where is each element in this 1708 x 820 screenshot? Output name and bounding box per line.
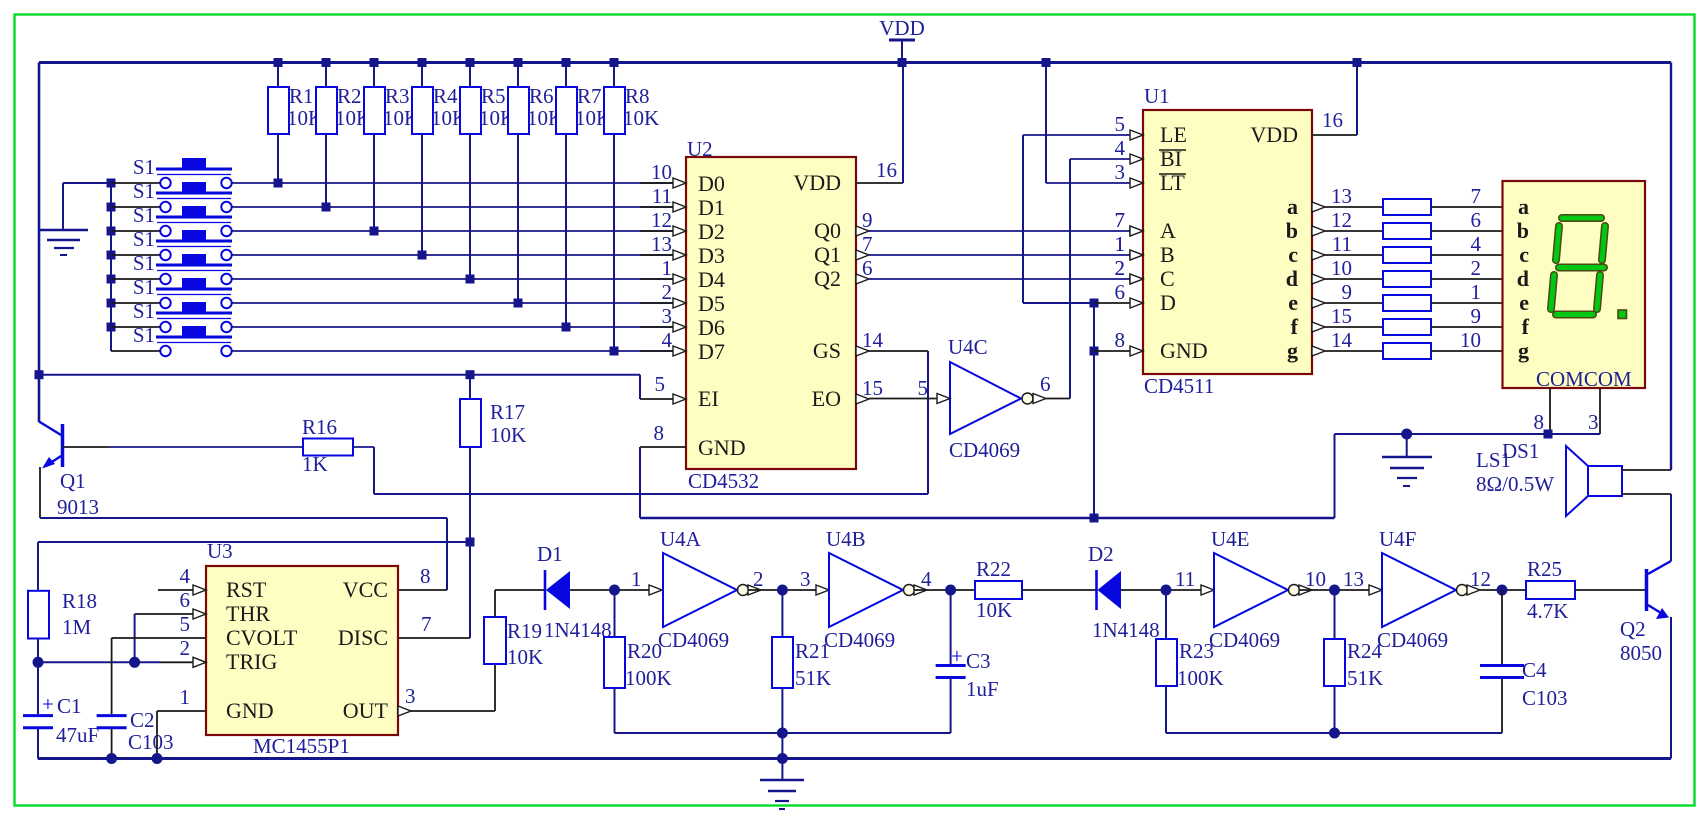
svg-text:12: 12 bbox=[1331, 208, 1352, 232]
svg-text:d: d bbox=[1517, 266, 1529, 291]
svg-text:COMCOM: COMCOM bbox=[1536, 367, 1632, 391]
resistor R8 10K bbox=[604, 58, 659, 356]
svg-text:VDD: VDD bbox=[793, 170, 841, 195]
wire Q2 emitter to rail bbox=[1670, 617, 1672, 759]
wire R22 to D2 bbox=[1022, 589, 1096, 591]
svg-text:R5: R5 bbox=[481, 84, 506, 108]
U1 output b pin 12 arrow bbox=[1312, 208, 1383, 236]
svg-text:2: 2 bbox=[180, 636, 191, 660]
svg-text:LE: LE bbox=[1160, 122, 1187, 147]
wire bottom GND rail bbox=[38, 757, 1671, 760]
svg-text:8050: 8050 bbox=[1620, 641, 1662, 665]
resistor R6 10K bbox=[508, 58, 563, 308]
resistor R22 10K bbox=[975, 557, 1022, 622]
svg-text:5: 5 bbox=[918, 376, 929, 400]
switch S1 section 8 bbox=[111, 323, 232, 356]
wire S1-2 to U2 D1 bbox=[232, 206, 673, 208]
svg-text:g: g bbox=[1287, 338, 1298, 363]
wire U4A out to U4B bbox=[748, 567, 829, 596]
wire S1-7 to U2 D6 bbox=[232, 326, 673, 328]
svg-text:CD4511: CD4511 bbox=[1144, 374, 1214, 398]
wire R20 R21 C3 common bbox=[615, 728, 951, 739]
switch S1 section 7 bbox=[107, 299, 233, 332]
wire U1 LT net to VDD bbox=[1042, 58, 1132, 183]
svg-text:c: c bbox=[1519, 242, 1529, 267]
svg-text:1: 1 bbox=[180, 685, 191, 709]
svg-text:U3: U3 bbox=[207, 539, 233, 563]
svg-text:C103: C103 bbox=[1522, 686, 1568, 710]
power VDD symbol bbox=[879, 16, 925, 67]
svg-text:S1: S1 bbox=[133, 251, 155, 275]
resistor R21 51K bbox=[772, 590, 831, 733]
resistor R17 10K bbox=[460, 375, 526, 542]
svg-text:U4B: U4B bbox=[826, 527, 866, 551]
svg-text:CD4069: CD4069 bbox=[824, 628, 895, 652]
svg-text:EI: EI bbox=[698, 386, 719, 411]
svg-text:1N4148: 1N4148 bbox=[1092, 618, 1160, 642]
svg-text:4: 4 bbox=[1471, 232, 1482, 256]
inverter U4A CD4069 bbox=[658, 527, 761, 652]
U3 pin 2 TRIG arrow bbox=[180, 636, 207, 667]
svg-text:B: B bbox=[1160, 242, 1175, 267]
svg-text:DISC: DISC bbox=[338, 625, 388, 650]
svg-text:100K: 100K bbox=[1177, 666, 1224, 690]
svg-text:9: 9 bbox=[1471, 304, 1482, 328]
svg-text:Q1: Q1 bbox=[814, 242, 841, 267]
wire segment a to DS1 bbox=[1431, 184, 1503, 208]
svg-text:10: 10 bbox=[1460, 328, 1481, 352]
svg-text:R25: R25 bbox=[1527, 557, 1562, 581]
svg-text:R4: R4 bbox=[433, 84, 458, 108]
wire LS1 bottom to Q2 bbox=[1622, 494, 1671, 561]
svg-text:12: 12 bbox=[651, 208, 672, 232]
diode D2 1N4148 bbox=[1088, 542, 1160, 642]
resistor segment d bbox=[1383, 271, 1431, 287]
wire U4C out pin 6 to U1 BI bbox=[1040, 159, 1131, 399]
U1 output d pin 10 arrow bbox=[1312, 256, 1383, 284]
wire S1-3 to U2 D2 bbox=[232, 230, 673, 232]
svg-text:S1: S1 bbox=[133, 203, 155, 227]
wire D1 to U4A bbox=[570, 567, 662, 596]
wire ground link to GND rail bbox=[1335, 434, 1407, 518]
svg-text:10K: 10K bbox=[976, 598, 1012, 622]
resistor segment a bbox=[1383, 199, 1431, 215]
wire U1 D pin stub bbox=[1094, 302, 1131, 304]
svg-text:+: + bbox=[42, 692, 54, 716]
svg-text:R2: R2 bbox=[337, 84, 362, 108]
svg-text:1M: 1M bbox=[62, 615, 92, 639]
svg-text:11: 11 bbox=[1332, 232, 1352, 256]
U1 left pin 6 arrow bbox=[1115, 280, 1144, 308]
svg-text:16: 16 bbox=[876, 158, 897, 182]
svg-text:C2: C2 bbox=[130, 708, 155, 732]
U1 left pin 1 arrow bbox=[1115, 232, 1144, 260]
transistor Q1 9013 bbox=[39, 422, 99, 520]
switch S1 section 1 bbox=[107, 155, 233, 188]
svg-text:5: 5 bbox=[180, 612, 191, 636]
capacitor C1 47uF bbox=[23, 662, 99, 758]
switch S1 section 3 bbox=[107, 203, 233, 236]
svg-text:3: 3 bbox=[662, 304, 673, 328]
resistor R24 51K bbox=[1324, 590, 1383, 733]
U2 pin 3 D6 arrow bbox=[662, 304, 687, 332]
svg-text:8: 8 bbox=[1115, 328, 1126, 352]
U3 pin 7 DISC number bbox=[421, 612, 432, 636]
svg-text:4: 4 bbox=[180, 564, 191, 588]
switch S1 section 5 bbox=[107, 251, 233, 284]
ground symbol (switch bank) bbox=[39, 183, 111, 255]
U3 pin 4 RST arrow bbox=[180, 564, 207, 595]
wire U1 VDD pin 16 bbox=[1312, 58, 1362, 135]
wire left border vertical bbox=[38, 63, 41, 423]
svg-text:D1: D1 bbox=[698, 195, 725, 220]
capacitor C2 C103 bbox=[97, 638, 174, 764]
speaker LS1 bbox=[1476, 446, 1622, 516]
svg-text:R3: R3 bbox=[385, 84, 410, 108]
svg-text:9: 9 bbox=[862, 208, 873, 232]
wire R18 top rail bbox=[38, 538, 475, 591]
wire R25 to Q2 base bbox=[1575, 589, 1645, 591]
op-amp U1 CD4511 decoder bbox=[1143, 84, 1312, 398]
svg-text:13: 13 bbox=[1331, 184, 1352, 208]
inverter U4E CD4069 bbox=[1209, 527, 1312, 652]
svg-text:15: 15 bbox=[1331, 304, 1352, 328]
svg-text:D5: D5 bbox=[698, 291, 725, 316]
resistor R1 10K bbox=[268, 58, 323, 188]
svg-text:VCC: VCC bbox=[343, 577, 388, 602]
svg-text:D3: D3 bbox=[698, 243, 725, 268]
svg-text:51K: 51K bbox=[1347, 666, 1383, 690]
svg-text:c: c bbox=[1288, 242, 1298, 267]
U2 pin 12 D2 arrow bbox=[651, 208, 686, 236]
svg-text:6: 6 bbox=[180, 588, 191, 612]
U1 output e pin 9 arrow bbox=[1312, 280, 1383, 308]
svg-text:S1: S1 bbox=[133, 155, 155, 179]
svg-text:S1: S1 bbox=[133, 275, 155, 299]
svg-text:S1: S1 bbox=[133, 299, 155, 323]
inverter U4F CD4069 bbox=[1377, 527, 1480, 652]
U2 pin 2 D5 arrow bbox=[662, 280, 687, 308]
svg-text:51K: 51K bbox=[795, 666, 831, 690]
wire DS1 COM pins to ground bbox=[1407, 388, 1600, 439]
U3 pin 3 OUT arrow bbox=[398, 684, 416, 716]
wire U2 Q1 to U1 bbox=[856, 232, 1143, 260]
U3 pin 6 THR arrow bbox=[180, 588, 207, 619]
U1 output f pin 15 arrow bbox=[1312, 304, 1383, 332]
ground symbol (display) bbox=[1382, 429, 1432, 487]
svg-text:3: 3 bbox=[1115, 160, 1126, 184]
resistor segment e bbox=[1383, 295, 1431, 311]
svg-text:U4E: U4E bbox=[1211, 527, 1250, 551]
svg-text:U4F: U4F bbox=[1379, 527, 1416, 551]
svg-text:d: d bbox=[1286, 266, 1298, 291]
svg-text:Q2: Q2 bbox=[1620, 617, 1646, 641]
wire U2 EO pin 15 to U4C bbox=[856, 376, 937, 404]
resistor R2 10K bbox=[316, 58, 371, 212]
resistor segment b bbox=[1383, 223, 1431, 239]
svg-text:7: 7 bbox=[862, 232, 873, 256]
svg-text:GND: GND bbox=[226, 698, 274, 723]
svg-text:D2: D2 bbox=[1088, 542, 1114, 566]
wire EI net from left border bbox=[35, 370, 674, 399]
svg-text:13: 13 bbox=[1343, 567, 1364, 591]
svg-text:11: 11 bbox=[652, 184, 672, 208]
U2 pin 11 D1 arrow bbox=[652, 184, 686, 212]
svg-text:D6: D6 bbox=[698, 315, 725, 340]
wire S1-1 to U2 D0 bbox=[232, 182, 673, 184]
wire segment c to DS1 bbox=[1431, 232, 1503, 256]
svg-text:CD4069: CD4069 bbox=[949, 438, 1020, 462]
resistor segment g bbox=[1383, 343, 1431, 359]
svg-text:LS1: LS1 bbox=[1476, 448, 1511, 472]
svg-text:47uF: 47uF bbox=[56, 723, 99, 747]
capacitor C4 C103 bbox=[1480, 590, 1568, 733]
svg-text:R6: R6 bbox=[529, 84, 554, 108]
svg-text:R19: R19 bbox=[507, 619, 542, 643]
svg-text:1N4148: 1N4148 bbox=[544, 618, 612, 642]
U1 left pin 4 arrow bbox=[1115, 136, 1144, 164]
diode D1 1N4148 bbox=[537, 542, 612, 642]
svg-text:11: 11 bbox=[1175, 567, 1195, 591]
resistor R4 10K bbox=[412, 58, 467, 260]
capacitor C3 1uF bbox=[936, 590, 999, 733]
wire R17 to U3 DISC bbox=[398, 542, 470, 638]
U2 pin 13 D3 arrow bbox=[651, 232, 686, 260]
svg-text:R20: R20 bbox=[627, 639, 662, 663]
svg-text:C4: C4 bbox=[1522, 658, 1547, 682]
wire U2 Q0 to U1 bbox=[856, 208, 1143, 236]
svg-text:2: 2 bbox=[753, 567, 764, 591]
svg-text:4: 4 bbox=[662, 328, 673, 352]
svg-text:b: b bbox=[1517, 218, 1529, 243]
svg-text:5: 5 bbox=[1115, 112, 1126, 136]
svg-text:6: 6 bbox=[1040, 372, 1051, 396]
svg-text:2: 2 bbox=[662, 280, 673, 304]
ground symbol (bottom center) bbox=[760, 733, 804, 809]
svg-text:Q2: Q2 bbox=[814, 266, 841, 291]
svg-text:GND: GND bbox=[1160, 338, 1208, 363]
svg-text:b: b bbox=[1286, 218, 1298, 243]
svg-text:7: 7 bbox=[1471, 184, 1482, 208]
svg-text:D2: D2 bbox=[698, 219, 725, 244]
U2 pin 1 D4 arrow bbox=[662, 256, 687, 284]
svg-text:15: 15 bbox=[862, 376, 883, 400]
svg-text:THR: THR bbox=[226, 601, 270, 626]
label DS1 bbox=[1502, 439, 1539, 463]
svg-text:1K: 1K bbox=[302, 452, 328, 476]
inverter U4B CD4069 bbox=[824, 527, 927, 652]
switch S1 section 4 bbox=[107, 227, 233, 260]
U1 output a pin 13 arrow bbox=[1312, 184, 1383, 212]
svg-text:10: 10 bbox=[1331, 256, 1352, 280]
svg-text:f: f bbox=[1522, 314, 1530, 339]
U2 pin 4 D7 arrow bbox=[662, 328, 687, 356]
op-amp U3 MC1455P1 timer bbox=[206, 539, 398, 758]
wire segment f to DS1 bbox=[1431, 304, 1503, 328]
svg-text:EO: EO bbox=[812, 386, 841, 411]
svg-text:a: a bbox=[1287, 194, 1298, 219]
U2 pin 10 D0 arrow bbox=[651, 160, 686, 188]
svg-text:14: 14 bbox=[1331, 328, 1353, 352]
svg-text:D7: D7 bbox=[698, 339, 725, 364]
svg-text:A: A bbox=[1160, 218, 1176, 243]
svg-text:8: 8 bbox=[1534, 410, 1545, 434]
resistor segment c bbox=[1383, 247, 1431, 263]
svg-text:Q0: Q0 bbox=[814, 218, 841, 243]
svg-text:7: 7 bbox=[1115, 208, 1126, 232]
svg-text:OUT: OUT bbox=[343, 698, 389, 723]
svg-text:R17: R17 bbox=[490, 400, 525, 424]
svg-text:CVOLT: CVOLT bbox=[226, 625, 298, 650]
wire mid GND rail bbox=[640, 514, 1335, 523]
svg-text:6: 6 bbox=[862, 256, 873, 280]
wire U3 OUT to R19 bbox=[411, 664, 495, 711]
wire segment d to DS1 bbox=[1431, 256, 1503, 280]
wire CVOLT stub bbox=[112, 637, 206, 639]
U3 pin 1 GND number bbox=[180, 685, 191, 709]
svg-text:1: 1 bbox=[1115, 232, 1126, 256]
svg-text:2: 2 bbox=[1115, 256, 1126, 280]
svg-text:D1: D1 bbox=[537, 542, 563, 566]
wire U4E out to U4F bbox=[1299, 567, 1382, 596]
wire U1 LE net bbox=[1023, 135, 1131, 303]
wire switch common bus bbox=[110, 183, 112, 351]
svg-text:VDD: VDD bbox=[1250, 122, 1298, 147]
svg-text:R18: R18 bbox=[62, 589, 97, 613]
svg-text:1uF: 1uF bbox=[966, 677, 999, 701]
resistor R7 10K bbox=[556, 58, 611, 332]
wire LS1 top to VDD bbox=[1622, 469, 1671, 471]
U3 pin 8 VCC number bbox=[420, 564, 431, 588]
op-amp U2 CD4532 priority encoder bbox=[686, 137, 856, 493]
svg-text:C1: C1 bbox=[57, 694, 82, 718]
svg-text:U2: U2 bbox=[687, 137, 713, 161]
svg-text:4: 4 bbox=[921, 567, 932, 591]
svg-text:CD4069: CD4069 bbox=[658, 628, 729, 652]
wire S1-4 to U2 D3 bbox=[232, 254, 673, 256]
U1 left pin 7 arrow bbox=[1115, 208, 1144, 236]
svg-text:g: g bbox=[1518, 338, 1529, 363]
wire segment b to DS1 bbox=[1431, 208, 1503, 232]
svg-text:C: C bbox=[1160, 266, 1175, 291]
wire VDD top rail bbox=[39, 61, 1671, 64]
resistor R3 10K bbox=[364, 58, 419, 236]
switch S1 section 6 bbox=[107, 275, 233, 308]
wire Q1 emitter to U3 VCC bbox=[40, 467, 447, 590]
svg-text:14: 14 bbox=[862, 328, 884, 352]
inverter U4C CD4069 bbox=[937, 335, 1046, 462]
svg-text:D4: D4 bbox=[698, 267, 725, 292]
svg-text:1: 1 bbox=[1471, 280, 1482, 304]
svg-text:f: f bbox=[1291, 314, 1299, 339]
wire U4B out to R22 bbox=[914, 567, 975, 596]
transistor Q2 8050 bbox=[1620, 561, 1671, 665]
U3 pin 5 CVOLT number bbox=[180, 612, 191, 636]
svg-text:CD4069: CD4069 bbox=[1209, 628, 1280, 652]
svg-text:C103: C103 bbox=[128, 730, 174, 754]
svg-text:2: 2 bbox=[1471, 256, 1482, 280]
svg-text:S1: S1 bbox=[133, 227, 155, 251]
svg-text:13: 13 bbox=[651, 232, 672, 256]
wire RST stub bbox=[158, 589, 193, 591]
resistor R5 10K bbox=[460, 58, 515, 284]
svg-text:R8: R8 bbox=[625, 84, 650, 108]
display DS1 seven-segment bbox=[1503, 181, 1646, 391]
svg-text:C3: C3 bbox=[966, 649, 991, 673]
wire U2 GND pin 8 bbox=[640, 421, 686, 518]
svg-text:a: a bbox=[1518, 194, 1529, 219]
U1 left pin 3 arrow bbox=[1115, 160, 1144, 188]
resistor R23 100K bbox=[1156, 590, 1224, 733]
svg-text:+: + bbox=[951, 644, 963, 668]
svg-text:U1: U1 bbox=[1144, 84, 1170, 108]
wire U2 Q2 to U1 bbox=[856, 256, 1143, 284]
wire U4F out to R25 bbox=[1470, 567, 1526, 596]
svg-text:RST: RST bbox=[226, 577, 267, 602]
svg-text:GS: GS bbox=[813, 338, 841, 363]
U2 pin 5 EI arrow bbox=[655, 372, 687, 404]
wire U3 GND to rail bbox=[152, 711, 207, 764]
svg-text:D0: D0 bbox=[698, 171, 725, 196]
switch S1 section 2 bbox=[107, 179, 233, 212]
svg-text:8: 8 bbox=[420, 564, 431, 588]
resistor R25 4.7K bbox=[1526, 557, 1575, 623]
svg-text:e: e bbox=[1519, 290, 1529, 315]
svg-text:9: 9 bbox=[1342, 280, 1353, 304]
svg-text:CD4069: CD4069 bbox=[1377, 628, 1448, 652]
U1 left pin 8 arrow bbox=[1115, 328, 1144, 356]
wire U2 VDD pin 16 bbox=[856, 63, 903, 184]
wire Q1 base to R16 bbox=[63, 446, 304, 448]
svg-text:16: 16 bbox=[1322, 108, 1343, 132]
svg-text:GND: GND bbox=[698, 435, 746, 460]
wire right VDD drop to speaker bbox=[1670, 63, 1672, 471]
wire U1 GND drop bbox=[1090, 299, 1099, 519]
svg-text:4: 4 bbox=[1115, 136, 1126, 160]
svg-text:CD4532: CD4532 bbox=[688, 469, 759, 493]
svg-text:e: e bbox=[1288, 290, 1298, 315]
resistor R18 1M bbox=[28, 589, 97, 639]
svg-text:8: 8 bbox=[654, 421, 665, 445]
wire R23 R24 C4 common bbox=[1166, 728, 1502, 739]
svg-text:5: 5 bbox=[655, 372, 666, 396]
wire U1 GND pin stub bbox=[1094, 350, 1131, 352]
svg-text:10K: 10K bbox=[623, 106, 659, 130]
svg-text:D: D bbox=[1160, 290, 1176, 315]
svg-text:1: 1 bbox=[631, 567, 642, 591]
svg-text:U4A: U4A bbox=[660, 527, 702, 551]
wire U2 GS pin 14 to R16 bbox=[374, 328, 928, 494]
wire segment g to DS1 bbox=[1431, 328, 1503, 352]
svg-text:R1: R1 bbox=[289, 84, 314, 108]
wire THR net bbox=[135, 614, 193, 662]
svg-text:9013: 9013 bbox=[57, 495, 99, 519]
svg-text:U4C: U4C bbox=[948, 335, 988, 359]
svg-text:10K: 10K bbox=[507, 645, 543, 669]
svg-text:Q1: Q1 bbox=[60, 469, 86, 493]
wire TRIG net bbox=[38, 657, 193, 668]
resistor R20 100K bbox=[604, 590, 672, 733]
wire segment e to DS1 bbox=[1431, 280, 1503, 304]
svg-text:VDD: VDD bbox=[879, 16, 925, 40]
svg-text:10: 10 bbox=[1305, 567, 1326, 591]
wire S1-5 to U2 D4 bbox=[232, 278, 673, 280]
svg-text:R7: R7 bbox=[577, 84, 602, 108]
svg-text:TRIG: TRIG bbox=[226, 649, 277, 674]
resistor segment f bbox=[1383, 319, 1431, 335]
svg-text:6: 6 bbox=[1471, 208, 1482, 232]
svg-text:S1: S1 bbox=[133, 179, 155, 203]
